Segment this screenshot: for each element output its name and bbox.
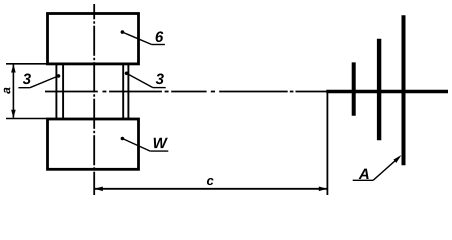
dimension a: dimension line with arrows <box>12 65 14 118</box>
dimension c: dimension line with arrows <box>95 188 327 190</box>
label 6 with leader <box>156 31 164 42</box>
coil block 6 (top rectangle) <box>48 14 139 64</box>
plate 3 (left pair of thin lines) <box>56 64 63 119</box>
wire: horizontal centerline (dash-dot axis to scale A) <box>45 91 327 93</box>
label 3 (right) with leader <box>156 74 164 85</box>
wire: vertical centerline (dash-dot axis of coil assembly) <box>93 4 95 195</box>
scale A: tick bar 2 <box>377 39 381 140</box>
scale A: tick bar 1 <box>352 62 356 115</box>
label c <box>207 178 214 185</box>
wire: extension line from scale A down to dimension c <box>326 92 328 196</box>
label a <box>4 87 11 93</box>
coil block W (bottom rectangle) <box>48 119 139 169</box>
scale A: horizontal bar <box>326 90 448 93</box>
label 3 (left) with leader <box>23 74 31 85</box>
label W with leader <box>154 138 168 148</box>
plate 3 (right pair of thin lines) <box>123 64 128 119</box>
scale A: tick bar 3 <box>402 15 406 165</box>
label A with arrow leader <box>359 169 369 179</box>
dimension a: extension lines <box>6 64 47 119</box>
